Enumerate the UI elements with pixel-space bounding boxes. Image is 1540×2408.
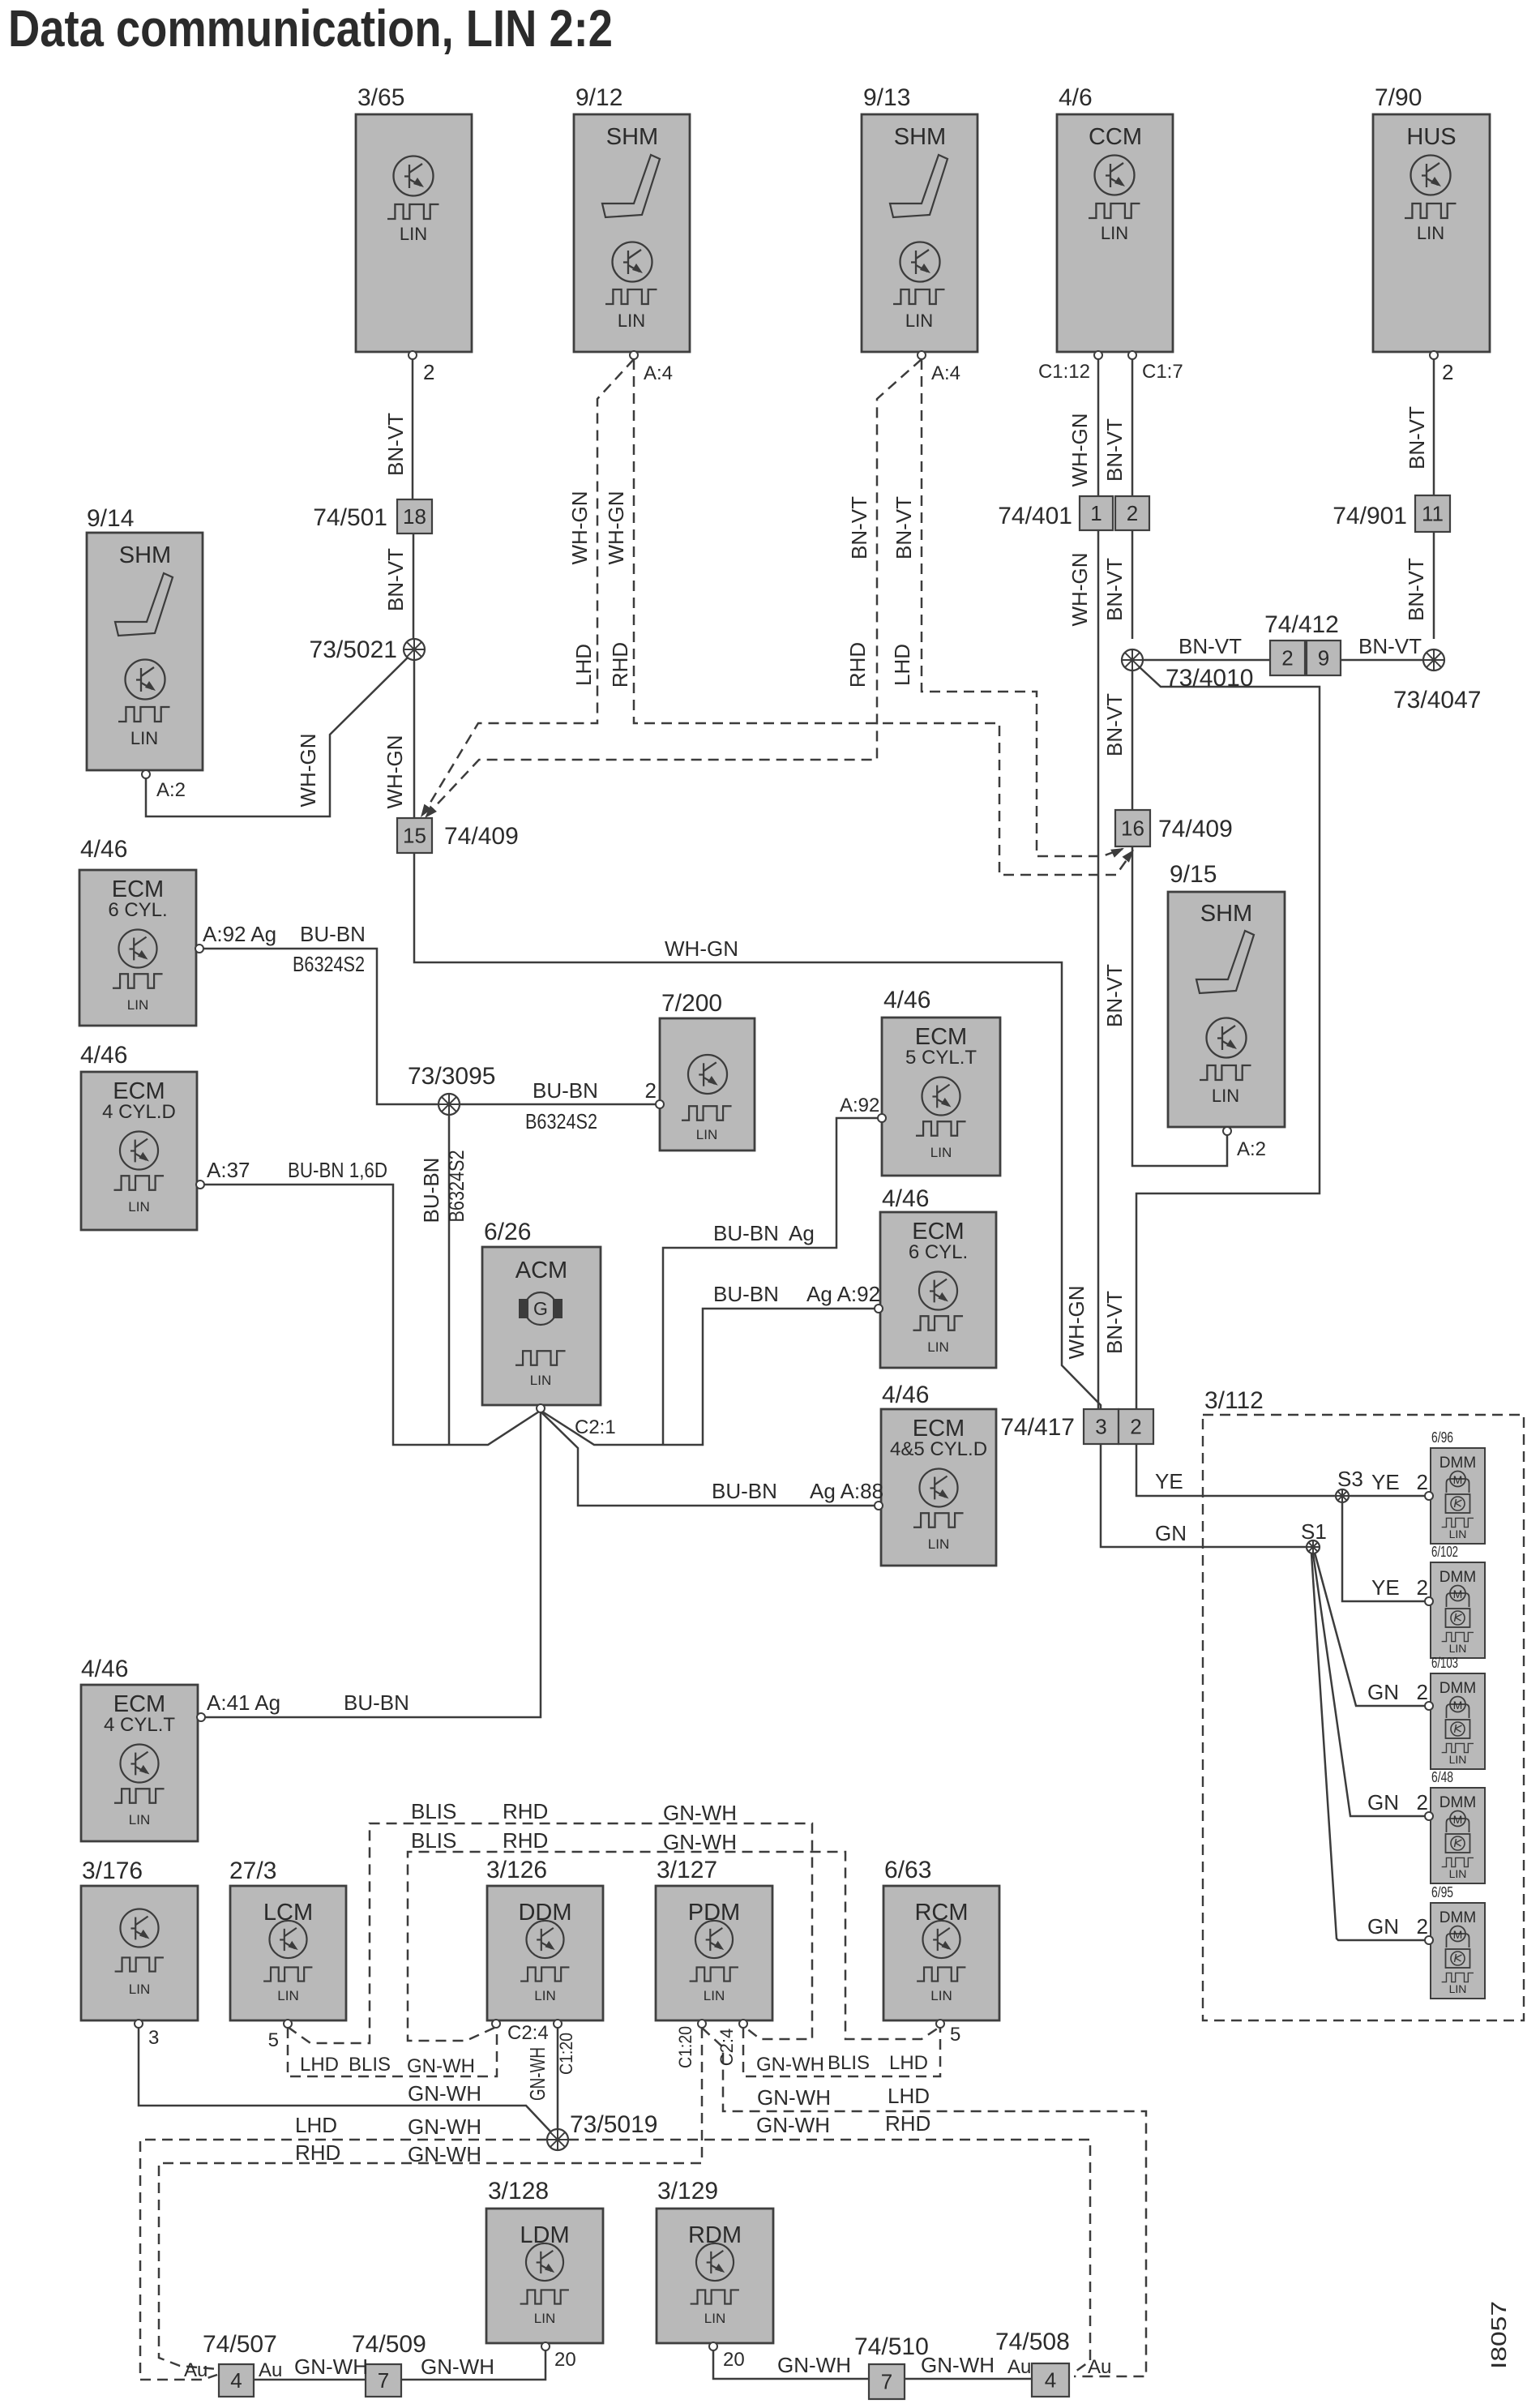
svg-text:C2:1: C2:1 [575, 1416, 616, 1438]
svg-text:3/127: 3/127 [657, 1857, 717, 1883]
svg-text:3/128: 3/128 [488, 2178, 549, 2204]
svg-text:9/14: 9/14 [87, 505, 134, 532]
svg-text:DMM: DMM [1439, 1569, 1476, 1586]
svg-text:RHD: RHD [503, 1799, 548, 1823]
svg-text:LIN: LIN [127, 997, 148, 1013]
svg-text:WH-GN: WH-GN [665, 936, 738, 961]
svg-text:74/901: 74/901 [1333, 503, 1407, 529]
svg-text:2: 2 [1442, 360, 1453, 384]
svg-text:6/95: 6/95 [1431, 1884, 1453, 1900]
svg-text:LIN: LIN [930, 1145, 952, 1160]
svg-text:I8057: I8057 [1487, 2301, 1511, 2369]
svg-text:B6324S2: B6324S2 [293, 952, 365, 976]
svg-text:LIN: LIN [618, 311, 645, 331]
svg-text:73/5021: 73/5021 [310, 636, 397, 663]
svg-text:74/409: 74/409 [1158, 816, 1233, 842]
svg-text:LIN: LIN [704, 1988, 725, 2003]
svg-text:BLIS: BLIS [411, 1828, 456, 1853]
svg-text:2: 2 [1130, 1415, 1141, 1439]
svg-text:7: 7 [378, 2368, 389, 2393]
svg-text:2: 2 [1417, 1680, 1428, 1704]
svg-text:A:4: A:4 [644, 362, 673, 384]
svg-text:BN-VT: BN-VT [383, 413, 408, 476]
svg-text:9/15: 9/15 [1170, 861, 1217, 888]
svg-text:3/129: 3/129 [657, 2178, 718, 2204]
svg-text:4/46: 4/46 [81, 1656, 128, 1682]
svg-text:Ag A:92: Ag A:92 [806, 1282, 880, 1306]
svg-text:BU-BN: BU-BN [712, 1479, 777, 1503]
svg-text:7/200: 7/200 [661, 990, 722, 1017]
svg-text:M: M [1453, 1928, 1463, 1941]
svg-text:6 CYL.: 6 CYL. [909, 1241, 968, 1263]
svg-text:6/102: 6/102 [1431, 1544, 1458, 1560]
svg-text:LIN: LIN [277, 1988, 298, 2003]
svg-text:3/126: 3/126 [486, 1857, 547, 1883]
svg-text:LIN: LIN [696, 1127, 717, 1142]
svg-text:C1:12: C1:12 [1038, 361, 1090, 383]
svg-text:2: 2 [1417, 1575, 1428, 1600]
svg-text:LIN: LIN [1449, 1982, 1467, 1995]
svg-text:C2:4: C2:4 [507, 2022, 549, 2044]
svg-text:6/96: 6/96 [1431, 1429, 1453, 1446]
svg-text:BN-VT: BN-VT [1102, 964, 1127, 1027]
svg-text:LIN: LIN [534, 1988, 555, 2003]
svg-text:RHD: RHD [885, 2111, 930, 2136]
svg-text:BN-VT: BN-VT [383, 548, 408, 611]
svg-text:18: 18 [403, 504, 426, 529]
svg-text:LIN: LIN [129, 1982, 150, 1997]
svg-text:GN-WH: GN-WH [663, 1830, 737, 1854]
svg-text:CCM: CCM [1089, 124, 1142, 150]
svg-text:4: 4 [1045, 2368, 1056, 2393]
svg-text:YE: YE [1155, 1469, 1183, 1493]
svg-text:BLIS: BLIS [349, 2054, 391, 2076]
svg-text:73/4047: 73/4047 [1393, 687, 1481, 713]
svg-text:3/112: 3/112 [1204, 1387, 1264, 1414]
svg-text:4/6: 4/6 [1059, 84, 1093, 111]
svg-text:RHD: RHD [295, 2140, 340, 2165]
svg-text:73/5019: 73/5019 [570, 2111, 657, 2138]
svg-text:GN-WH: GN-WH [525, 2047, 550, 2101]
svg-text:LIN: LIN [1212, 1086, 1239, 1106]
svg-text:LIN: LIN [1417, 223, 1444, 243]
svg-text:LHD: LHD [890, 644, 914, 686]
svg-text:HUS: HUS [1406, 124, 1456, 150]
svg-text:6/63: 6/63 [884, 1857, 931, 1883]
svg-text:7/90: 7/90 [1375, 84, 1422, 111]
svg-text:2: 2 [1417, 1914, 1428, 1939]
svg-text:4/46: 4/46 [883, 987, 930, 1013]
svg-text:2: 2 [1127, 501, 1138, 525]
svg-text:7: 7 [881, 2370, 892, 2394]
svg-text:6/26: 6/26 [484, 1219, 531, 1245]
svg-text:BN-VT: BN-VT [1102, 558, 1127, 621]
svg-text:A:92 Ag: A:92 Ag [203, 922, 276, 946]
svg-text:4/46: 4/46 [80, 836, 127, 863]
svg-text:5: 5 [268, 2029, 279, 2051]
svg-text:73/4010: 73/4010 [1166, 665, 1253, 692]
svg-text:RHD: RHD [845, 642, 870, 688]
svg-text:Au: Au [259, 2359, 282, 2381]
svg-text:B6324S2: B6324S2 [525, 1109, 597, 1133]
svg-text:LIN: LIN [928, 1536, 949, 1552]
svg-text:6/103: 6/103 [1431, 1655, 1458, 1671]
svg-text:74/417: 74/417 [1000, 1414, 1075, 1441]
svg-text:74/510: 74/510 [854, 2333, 929, 2360]
svg-text:5: 5 [950, 2024, 960, 2046]
svg-text:GN-WH: GN-WH [663, 1801, 737, 1825]
svg-text:SHM: SHM [1200, 901, 1252, 927]
svg-text:WH-GN: WH-GN [567, 491, 592, 565]
svg-text:BN-VT: BN-VT [1404, 558, 1428, 621]
svg-text:DMM: DMM [1439, 1680, 1476, 1697]
svg-text:4/46: 4/46 [882, 1185, 929, 1212]
svg-text:11: 11 [1422, 502, 1444, 526]
svg-text:SHM: SHM [119, 542, 171, 568]
svg-text:C1:7: C1:7 [1142, 361, 1183, 383]
svg-text:6/48: 6/48 [1431, 1769, 1453, 1785]
svg-text:74/412: 74/412 [1264, 611, 1339, 638]
svg-text:C1:20: C1:20 [556, 2033, 576, 2075]
svg-text:WH-GN: WH-GN [1064, 1286, 1089, 1360]
svg-text:4: 4 [230, 2368, 242, 2393]
svg-text:A:4: A:4 [931, 362, 960, 384]
svg-text:74/507: 74/507 [203, 2331, 277, 2358]
svg-text:SHM: SHM [894, 124, 946, 150]
svg-text:LIN: LIN [1449, 1867, 1467, 1880]
svg-text:GN-WH: GN-WH [756, 2113, 830, 2137]
svg-text:GN: GN [1155, 1521, 1187, 1545]
svg-text:GN: GN [1367, 1914, 1399, 1939]
svg-text:27/3: 27/3 [229, 1857, 276, 1884]
svg-text:Ag: Ag [789, 1221, 815, 1245]
svg-text:M: M [1453, 1587, 1463, 1600]
svg-text:GN-WH: GN-WH [294, 2354, 368, 2379]
svg-text:2: 2 [1417, 1790, 1428, 1815]
svg-text:5 CYL.T: 5 CYL.T [905, 1047, 977, 1069]
svg-text:GN-WH: GN-WH [921, 2353, 995, 2377]
svg-text:20: 20 [554, 2349, 576, 2371]
svg-text:3: 3 [148, 2027, 159, 2049]
svg-text:LCM: LCM [263, 1900, 313, 1926]
svg-text:ACM: ACM [515, 1258, 567, 1283]
svg-text:BN-VT: BN-VT [1179, 634, 1242, 658]
svg-text:GN-WH: GN-WH [756, 2054, 824, 2076]
svg-text:9: 9 [1318, 646, 1329, 671]
svg-text:LHD: LHD [295, 2113, 337, 2137]
svg-text:B6324S2: B6324S2 [444, 1150, 468, 1223]
svg-text:YE: YE [1371, 1575, 1400, 1600]
svg-text:DDM: DDM [518, 1900, 571, 1926]
svg-text:1: 1 [1090, 501, 1102, 525]
svg-text:LIN: LIN [530, 1373, 551, 1388]
svg-text:74/401: 74/401 [998, 503, 1072, 529]
svg-text:20: 20 [723, 2349, 745, 2371]
svg-text:GN: GN [1367, 1790, 1399, 1815]
svg-text:GN-WH: GN-WH [777, 2353, 851, 2377]
svg-text:S1: S1 [1301, 1519, 1327, 1544]
svg-text:WH-GN: WH-GN [296, 734, 320, 808]
svg-text:6 CYL.: 6 CYL. [108, 899, 167, 921]
svg-text:2: 2 [1417, 1470, 1428, 1494]
svg-text:LIN: LIN [1449, 1527, 1467, 1540]
svg-text:RHD: RHD [608, 642, 632, 688]
svg-text:GN: GN [1367, 1680, 1399, 1704]
svg-text:C1:20: C1:20 [675, 2026, 695, 2068]
svg-text:LIN: LIN [129, 1812, 150, 1827]
svg-text:A:37: A:37 [207, 1158, 250, 1182]
svg-text:BN-VT: BN-VT [1102, 693, 1127, 756]
svg-text:M: M [1453, 1473, 1463, 1486]
svg-text:9/12: 9/12 [575, 84, 622, 111]
svg-text:PDM: PDM [688, 1900, 740, 1926]
svg-text:LIN: LIN [927, 1339, 948, 1355]
svg-text:LIN: LIN [1101, 223, 1128, 243]
svg-text:LIN: LIN [128, 1199, 149, 1215]
svg-text:BU-BN: BU-BN [713, 1221, 779, 1245]
svg-text:DMM: DMM [1439, 1794, 1476, 1811]
svg-text:A:41 Ag: A:41 Ag [207, 1690, 280, 1715]
svg-text:4/46: 4/46 [80, 1042, 127, 1069]
svg-text:BU-BN: BU-BN [344, 1690, 409, 1715]
svg-text:SHM: SHM [606, 124, 658, 150]
svg-text:BN-VT: BN-VT [1358, 634, 1422, 658]
svg-text:16: 16 [1121, 816, 1144, 841]
svg-text:BN-VT: BN-VT [1102, 1291, 1127, 1354]
svg-text:GN-WH: GN-WH [757, 2085, 831, 2110]
svg-text:LDM: LDM [520, 2222, 569, 2248]
svg-text:A:2: A:2 [1237, 1138, 1266, 1160]
svg-text:LIN: LIN [1449, 1642, 1467, 1655]
svg-text:BU-BN: BU-BN [419, 1158, 443, 1223]
svg-text:DMM: DMM [1439, 1455, 1476, 1472]
svg-text:2: 2 [1281, 646, 1293, 671]
svg-text:RCM: RCM [914, 1900, 968, 1926]
svg-text:BU-BN 1,6D: BU-BN 1,6D [288, 1158, 387, 1182]
svg-text:RDM: RDM [688, 2222, 742, 2248]
svg-text:74/508: 74/508 [995, 2329, 1070, 2355]
svg-text:Au: Au [1007, 2356, 1031, 2378]
svg-text:GN-WH: GN-WH [408, 2142, 481, 2166]
svg-text:3/176: 3/176 [82, 1857, 143, 1884]
svg-text:RHD: RHD [503, 1828, 548, 1853]
svg-text:2: 2 [423, 360, 434, 384]
svg-text:DMM: DMM [1439, 1909, 1476, 1926]
svg-text:4 CYL.D: 4 CYL.D [102, 1101, 176, 1123]
svg-text:GN-WH: GN-WH [408, 2081, 481, 2106]
svg-text:Data communication, LIN 2:2: Data communication, LIN 2:2 [8, 0, 613, 58]
svg-text:BN-VT: BN-VT [1102, 418, 1127, 482]
svg-text:GN-WH: GN-WH [408, 2114, 481, 2139]
svg-text:GN-WH: GN-WH [407, 2055, 475, 2077]
svg-text:4 CYL.T: 4 CYL.T [104, 1714, 175, 1736]
svg-text:9/13: 9/13 [863, 84, 910, 111]
svg-text:BN-VT: BN-VT [847, 496, 871, 559]
svg-text:BLIS: BLIS [411, 1799, 456, 1823]
svg-text:LHD: LHD [571, 644, 596, 686]
svg-text:BU-BN: BU-BN [533, 1078, 598, 1103]
svg-text:M: M [1453, 1813, 1463, 1826]
svg-text:LIN: LIN [1449, 1753, 1467, 1766]
svg-text:LIN: LIN [534, 2311, 555, 2326]
svg-text:4&5 CYL.D: 4&5 CYL.D [890, 1438, 987, 1460]
svg-text:2: 2 [645, 1078, 657, 1103]
svg-text:LHD: LHD [889, 2052, 928, 2074]
svg-text:LIN: LIN [905, 311, 933, 331]
svg-text:LIN: LIN [400, 224, 427, 244]
svg-text:74/501: 74/501 [313, 504, 387, 531]
svg-text:YE: YE [1371, 1470, 1400, 1494]
svg-text:Au: Au [184, 2359, 207, 2381]
svg-text:WH-GN: WH-GN [383, 735, 407, 809]
svg-text:73/3095: 73/3095 [408, 1063, 495, 1090]
svg-text:Au: Au [1088, 2356, 1111, 2378]
svg-text:C2:4: C2:4 [717, 2029, 737, 2066]
svg-text:M: M [1453, 1699, 1463, 1712]
svg-text:LIN: LIN [930, 1988, 952, 2003]
svg-text:BU-BN: BU-BN [713, 1282, 779, 1306]
svg-text:A:92: A:92 [840, 1095, 879, 1116]
svg-text:S3: S3 [1337, 1467, 1363, 1491]
svg-text:BU-BN: BU-BN [300, 922, 366, 946]
svg-text:BN-VT: BN-VT [1405, 406, 1429, 469]
svg-text:LHD: LHD [888, 2084, 930, 2108]
svg-text:3/65: 3/65 [357, 84, 404, 111]
svg-text:Ag A:88: Ag A:88 [810, 1479, 883, 1503]
svg-text:4/46: 4/46 [882, 1382, 929, 1408]
svg-text:LIN: LIN [704, 2311, 725, 2326]
svg-text:BN-VT: BN-VT [892, 496, 916, 559]
svg-text:WH-GN: WH-GN [1067, 553, 1092, 627]
svg-text:A:2: A:2 [156, 779, 186, 801]
svg-text:LIN: LIN [130, 728, 158, 748]
svg-text:BLIS: BLIS [828, 2052, 870, 2074]
svg-text:15: 15 [403, 824, 426, 848]
svg-text:G: G [533, 1298, 548, 1319]
svg-text:3: 3 [1095, 1415, 1106, 1439]
svg-text:WH-GN: WH-GN [1067, 413, 1092, 487]
svg-text:WH-GN: WH-GN [604, 491, 628, 565]
svg-text:GN-WH: GN-WH [421, 2354, 494, 2379]
svg-text:74/409: 74/409 [444, 823, 519, 850]
svg-text:LHD: LHD [300, 2054, 339, 2076]
